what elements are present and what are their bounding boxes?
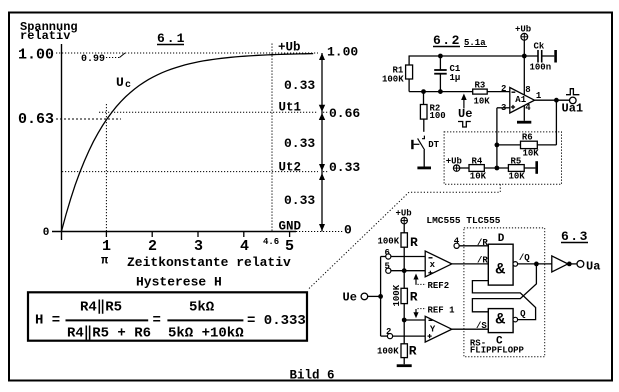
value 0.33 right — [329, 160, 360, 175]
svg-text:10K: 10K — [509, 172, 526, 182]
svg-text:GND: GND — [279, 220, 302, 234]
gate C output bubble — [513, 317, 518, 322]
REF2 pointer — [413, 274, 449, 292]
svg-text:100: 100 — [430, 111, 446, 121]
wire comparator Y out to gate C — [452, 328, 489, 330]
junction R4 R5 node — [495, 166, 500, 171]
wire chain lower — [403, 304, 405, 344]
wire REF1 node to comparator Y minus — [404, 319, 425, 321]
ground op-amp — [517, 121, 531, 124]
wire R3 to op-amp — [487, 91, 510, 93]
x-axis ticks — [106, 232, 289, 238]
svg-text:R: R — [410, 235, 418, 250]
svg-text:H =: H = — [35, 313, 60, 329]
svg-text:π: π — [101, 254, 109, 268]
y label 0.63 — [18, 111, 54, 128]
wire +Ub to chain — [403, 224, 405, 233]
wire bottom rail 6.2 — [409, 91, 473, 93]
svg-text:5kΩ: 5kΩ — [189, 300, 215, 316]
buffer gate output — [552, 256, 568, 272]
arrow column line — [321, 53, 323, 232]
curve Uc exponential — [61, 54, 313, 232]
junction bottom rail R2 — [421, 89, 426, 94]
dotted vertical t=4.6 — [271, 44, 273, 232]
junction REF2 node — [402, 268, 407, 273]
label 6.3 — [561, 229, 589, 244]
comparator X — [425, 251, 452, 277]
label /S comparator input — [476, 321, 487, 331]
svg-text:0.33: 0.33 — [329, 160, 360, 175]
dotted stub Ut1 right — [323, 111, 328, 113]
svg-text:0: 0 — [43, 227, 50, 239]
formula fraction 1 — [66, 300, 152, 342]
svg-text:+Ub: +Ub — [446, 156, 462, 166]
svg-text:Ut1: Ut1 — [279, 101, 302, 115]
svg-text:REF 1: REF 1 — [428, 306, 456, 316]
junction top rail +Ub — [522, 54, 527, 59]
y label 1.00 — [18, 47, 54, 64]
input Ue 6.3 — [343, 291, 381, 305]
power +Ub R4 — [446, 156, 462, 171]
node Ut2 chart label — [279, 160, 302, 174]
REF1 pointer — [413, 306, 455, 319]
dotted stub Ut2 right — [323, 171, 328, 173]
svg-text:Q: Q — [520, 309, 526, 319]
label Q — [520, 309, 526, 319]
dotted box RS flip-flop — [464, 228, 545, 357]
wire R5 to terminal — [524, 167, 535, 169]
label Bild 6 — [290, 369, 335, 383]
label Hysterese H — [136, 275, 222, 290]
terminal bar right of Ck — [554, 50, 557, 63]
dotted box R4 R5 R6 — [444, 132, 561, 184]
span label 0.33 middle — [284, 136, 315, 151]
y-axis — [61, 44, 63, 240]
svg-text:Ua: Ua — [586, 260, 600, 274]
junction D output — [534, 262, 539, 267]
svg-text:1: 1 — [102, 238, 111, 255]
svg-text:0.63: 0.63 — [18, 111, 54, 128]
pulse icon Ue — [458, 122, 471, 128]
svg-text:= 0.333: = 0.333 — [247, 313, 306, 329]
gate D output bubble — [513, 262, 518, 267]
svg-text:Bild 6: Bild 6 — [290, 369, 335, 383]
label /R comparator input — [477, 256, 488, 266]
comparator Y — [425, 316, 452, 342]
svg-text:U: U — [116, 75, 124, 90]
wire plus input riser — [497, 108, 510, 168]
wire pin2 to comparator Y plus — [393, 335, 426, 337]
svg-text:R4‖R5: R4‖R5 — [80, 300, 122, 316]
curve label Uc — [116, 75, 131, 91]
svg-text:0.99: 0.99 — [81, 54, 105, 65]
svg-text:0: 0 — [344, 223, 352, 238]
value 0 right — [344, 223, 352, 238]
svg-text:8: 8 — [525, 85, 530, 95]
svg-text:relativ: relativ — [20, 29, 70, 43]
svg-text:4: 4 — [240, 238, 249, 255]
svg-text:10K: 10K — [474, 97, 491, 107]
wire left vertical 6.3 — [380, 257, 382, 337]
svg-text:&: & — [496, 311, 506, 329]
dotted GND leader to 0 — [296, 231, 343, 233]
label RS-FLIPPFLOPP — [470, 339, 525, 356]
span label 0.33 upper — [284, 78, 315, 93]
wire chain upper — [403, 247, 405, 288]
resistor R2 — [420, 92, 445, 121]
node GND chart label — [279, 220, 302, 234]
resistor R top 100K — [378, 233, 419, 250]
formula box — [28, 292, 307, 340]
pin 6 — [381, 248, 391, 259]
input Ue arrow 6.2 — [458, 94, 472, 122]
dotted vertical t=1 — [105, 104, 107, 231]
svg-text:LMC555 TLC555: LMC555 TLC555 — [426, 215, 500, 226]
label 6.1 — [157, 31, 186, 46]
label /R pin4 input — [477, 238, 488, 248]
svg-text:REF2: REF2 — [428, 281, 450, 291]
svg-text:R: R — [410, 290, 418, 305]
svg-text:x: x — [430, 260, 436, 270]
svg-text:Ut2: Ut2 — [279, 160, 302, 174]
resistor R middle 100K — [392, 284, 418, 306]
svg-text:+Ub: +Ub — [278, 41, 301, 55]
svg-text:DT: DT — [428, 140, 439, 150]
terminal Ua — [577, 260, 600, 274]
svg-text:1µ: 1µ — [450, 73, 461, 83]
formula H equals — [35, 313, 60, 329]
terminal bar right of R5 — [535, 161, 538, 174]
svg-text:2: 2 — [148, 238, 157, 255]
label 6.2 — [433, 33, 487, 48]
resistor R3 — [473, 81, 491, 107]
power +Ub 6.3 — [396, 209, 412, 224]
svg-text:10K: 10K — [523, 148, 540, 158]
node Ut1 chart label — [279, 101, 302, 115]
wire pin5 to chain node and comparator X plus — [391, 270, 425, 272]
capacitor Ck — [530, 42, 552, 73]
op-amp A1 — [501, 84, 542, 113]
wire pin4 to gate D — [459, 245, 488, 247]
dashed level line 0.63 — [56, 118, 121, 120]
junction REF1 node — [402, 318, 407, 323]
svg-text:100K: 100K — [392, 284, 402, 306]
svg-text:100K: 100K — [377, 346, 399, 356]
dotted level line 1.00 +Ub — [56, 52, 318, 54]
wire pin6 to comparator X minus — [391, 256, 425, 258]
x-axis title pi — [101, 254, 109, 268]
svg-text:/Q: /Q — [519, 253, 530, 263]
svg-text:5: 5 — [285, 238, 294, 255]
wire gate D output — [518, 263, 552, 265]
label 0.99 — [81, 54, 105, 65]
wire op-amp output — [535, 99, 570, 101]
label 4.6 — [263, 237, 279, 247]
svg-text:1.00: 1.00 — [18, 47, 54, 64]
svg-text:5kΩ +10kΩ: 5kΩ +10kΩ — [168, 326, 244, 342]
svg-text:Zeitkonstante relativ: Zeitkonstante relativ — [127, 255, 291, 270]
wire pin 4 to ground — [523, 106, 525, 121]
svg-text:FLIPPFLOPP: FLIPPFLOPP — [470, 346, 525, 356]
y label 0 — [43, 227, 50, 239]
svg-text:R: R — [409, 343, 417, 358]
x-axis title Zeitkonstante relativ — [127, 255, 291, 270]
svg-text:/S: /S — [476, 321, 487, 331]
svg-text:0.33: 0.33 — [284, 193, 315, 208]
wire +Ub down — [523, 40, 525, 56]
dotted level line Ut1 — [99, 111, 318, 113]
svg-text:D: D — [498, 233, 505, 245]
pin 5 — [385, 262, 391, 274]
svg-text:=: = — [153, 313, 161, 329]
gate D block — [488, 233, 513, 285]
junction Ue node — [378, 294, 383, 299]
svg-text:Hysterese H: Hysterese H — [136, 275, 222, 290]
svg-text:0.66: 0.66 — [329, 106, 360, 121]
wire feedback D out to C in — [472, 264, 536, 312]
svg-text:Ue: Ue — [458, 107, 472, 121]
chart 6.1 title Spannung relativ — [20, 20, 78, 43]
svg-text:Ue: Ue — [343, 291, 357, 305]
switch DT push button — [411, 119, 439, 166]
resistor R bottom 100K — [377, 343, 417, 358]
svg-text:4.6: 4.6 — [263, 237, 279, 247]
svg-text:R4‖R5 + R6: R4‖R5 + R6 — [67, 326, 151, 342]
wire R6 row — [497, 100, 557, 145]
wire comparator X out to gate D — [452, 263, 489, 265]
pin 2 — [381, 327, 393, 339]
dotted connector from box to formula — [308, 184, 500, 289]
svg-text:2: 2 — [501, 84, 506, 94]
svg-text:100K: 100K — [378, 237, 400, 247]
node +Ub chart label — [278, 41, 301, 55]
svg-text:100K: 100K — [382, 75, 404, 85]
svg-text:100n: 100n — [530, 63, 552, 73]
svg-text:/R: /R — [477, 256, 488, 266]
resistor R6 — [521, 133, 540, 159]
svg-text:10K: 10K — [470, 172, 487, 182]
formula equals 2 — [153, 313, 161, 329]
arrowheads on column — [319, 53, 325, 231]
value 0.66 right — [329, 106, 360, 121]
svg-text:Y: Y — [430, 325, 436, 335]
label LMC555 TLC555 — [426, 215, 500, 226]
formula result — [247, 313, 306, 329]
junction top rail C1 — [438, 54, 443, 59]
pulse icon Ua1 — [566, 89, 579, 95]
0.99 dotted leader — [106, 53, 125, 58]
x-axis — [52, 231, 296, 233]
value 1.00 right — [327, 45, 358, 60]
capacitor C1 — [434, 56, 461, 92]
svg-text:/R: /R — [477, 238, 488, 248]
formula fraction 2 — [167, 300, 244, 342]
label /Q — [519, 253, 530, 263]
span label 0.33 lower — [284, 193, 315, 208]
svg-text:1.00: 1.00 — [327, 45, 358, 60]
resistor R1 — [382, 56, 413, 92]
terminal Ua1 — [562, 97, 584, 115]
wire top rail 6.2 — [409, 55, 538, 57]
ground chain — [397, 364, 412, 367]
wire chain to ground — [403, 358, 405, 365]
svg-text:Ua1: Ua1 — [562, 102, 584, 116]
resistor R4 — [460, 156, 487, 181]
svg-text:&: & — [496, 261, 506, 279]
svg-text:3: 3 — [194, 238, 203, 255]
svg-text:Ck: Ck — [534, 42, 545, 52]
svg-text:c: c — [125, 80, 131, 91]
junction output node — [554, 98, 559, 103]
dotted level line Ut2 — [62, 171, 318, 173]
wire feedback C out to D in — [472, 281, 535, 320]
svg-text:0.33: 0.33 — [284, 136, 315, 151]
x-axis tick labels — [102, 238, 294, 255]
junction buffer output — [567, 262, 577, 267]
junction R6 row left — [495, 143, 500, 148]
pin 4 — [454, 237, 460, 249]
wire pin 8 from top rail — [523, 56, 525, 95]
junction bottom rail C1 — [438, 89, 443, 94]
svg-text:4: 4 — [525, 103, 531, 113]
power +Ub circuit 6.2 — [515, 25, 531, 41]
wire Ck to terminal — [542, 55, 555, 57]
svg-text:0.33: 0.33 — [284, 78, 315, 93]
ground below DT — [417, 167, 431, 170]
resistor R5 — [508, 156, 525, 181]
gate C block — [488, 309, 513, 348]
wire R4 to node — [484, 167, 508, 169]
